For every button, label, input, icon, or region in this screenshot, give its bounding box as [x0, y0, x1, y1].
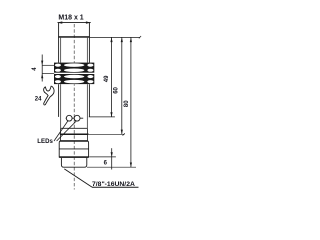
svg-text:60: 60: [114, 86, 120, 93]
dim 49 bottom arrow: [110, 112, 112, 117]
nuts background: [54, 63, 94, 85]
dim 49 line: [111, 37, 113, 117]
dim 60 end tick: [123, 133, 125, 135]
connector collar: [59, 141, 88, 157]
dim 6 arrow: [111, 152, 113, 157]
thread inner right line: [86, 38, 88, 129]
collar top edge: [60, 140, 88, 142]
body sides below groove: [60, 128, 62, 135]
hex nut 2: [54, 74, 94, 84]
barrel outer right edge: [88, 23, 90, 117]
body bottom line: [61, 127, 88, 129]
hex nut 1: [54, 63, 94, 73]
dim 80 bottom extension line: [87, 166, 136, 168]
end plug: [61, 158, 86, 167]
LED tick line: [66, 117, 84, 119]
LED leader line 2: [57, 121, 77, 141]
dim 49 top arrow: [110, 37, 112, 42]
dim 6 line: [111, 148, 113, 169]
svg-text:24: 24: [35, 96, 42, 102]
sensor head top face / M18 dimension line: [58, 22, 91, 24]
nut dimension 4: dimension line: [41, 55, 43, 82]
LED circle 2: [74, 115, 80, 121]
4 dim lower arrow: [41, 74, 43, 79]
centerline: [73, 24, 75, 190]
4 dim upper arrow: [41, 61, 43, 66]
body end thick line: [60, 134, 89, 136]
M18 right arrow: [86, 21, 91, 23]
head/thread boundary thick line: [58, 36, 90, 38]
dim 60 top arrow: [121, 37, 123, 42]
collar mid line: [59, 148, 88, 150]
svg-text:7/8"-16UN/2A: 7/8"-16UN/2A: [92, 181, 135, 188]
nut dimension 4: extension line bottom: [42, 73, 54, 75]
svg-text:49: 49: [104, 75, 110, 82]
dim 80 bottom arrow: [130, 163, 132, 168]
barrel outer left edge: [58, 23, 60, 117]
ref line end tick: [139, 36, 141, 38]
svg-text:LEDs: LEDs: [37, 138, 53, 145]
dim 60 line: [121, 37, 123, 134]
M18 left arrow: [57, 21, 62, 23]
wrench icon: [44, 86, 54, 105]
dim 6 extension line: [89, 156, 116, 158]
svg-text:M18 x 1: M18 x 1: [58, 15, 83, 22]
svg-text:80: 80: [124, 100, 130, 107]
dim 60 bottom extension line: [89, 133, 125, 135]
LED leader line 1: [54, 121, 68, 141]
connector thread label underline: [92, 186, 139, 188]
dim 80 line: [130, 37, 132, 167]
collar bold bottom edge: [59, 156, 88, 158]
dim 49 bottom extension line: [89, 116, 115, 118]
LED circle 1: [66, 115, 72, 121]
thread inner left line: [60, 38, 62, 129]
dim 80 top arrow: [130, 37, 132, 42]
connector thread leader line: [64, 169, 92, 187]
section below body: sides: [60, 135, 62, 141]
nut dimension 4: extension line top: [42, 64, 54, 66]
top reference line: [90, 36, 140, 38]
dim 60 bottom arrow: [121, 130, 123, 135]
